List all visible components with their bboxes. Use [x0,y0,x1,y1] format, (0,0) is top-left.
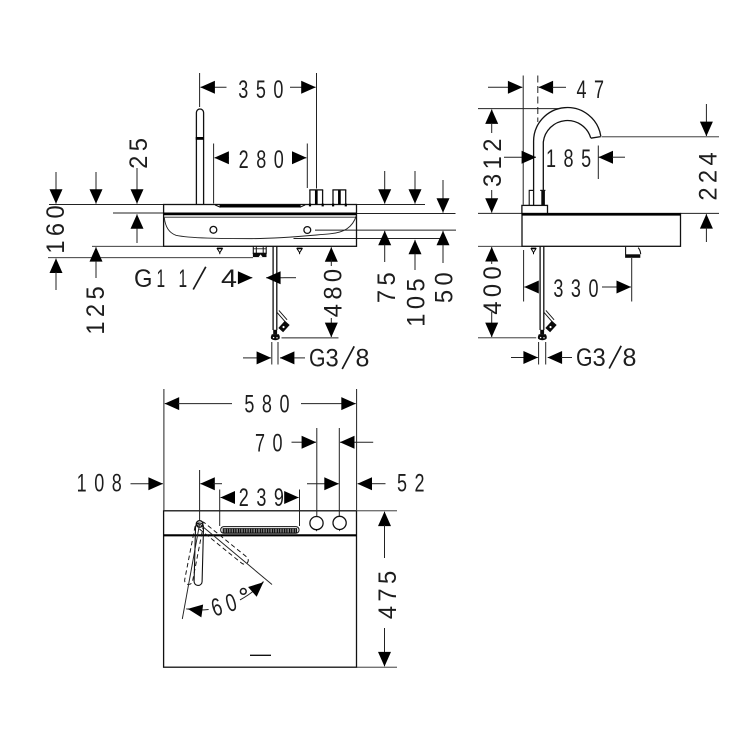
basin bottom ext left [92,245,164,247]
svg-text:105: 105 [403,274,431,327]
svg-text:G: G [576,343,593,371]
plan body rect [164,511,357,667]
outlet protrusion [625,247,641,258]
spout pipe [534,108,601,205]
basin body front [164,205,357,247]
knob circle left [310,517,323,530]
angle arc right segment [240,582,264,600]
svg-text:160: 160 [42,201,70,254]
handle dashed right position [196,520,250,566]
hose end level line [478,337,536,339]
dim 108 [77,469,222,521]
bowl curve [164,216,356,239]
svg-text:70: 70 [255,428,290,457]
angle leg right [200,524,272,585]
pivot circle [196,521,203,528]
dim 47 [488,75,612,205]
svg-text:224: 224 [695,148,723,201]
stud right under basin [297,248,303,254]
dim 50 [431,180,459,303]
svg-text:3: 3 [593,344,606,372]
hose end level line [282,337,339,339]
svg-text:239: 239 [239,483,292,512]
hose angled nut side [545,321,556,333]
dim 224 [695,104,723,242]
dim 160 [42,172,70,290]
wall line left [49,204,164,206]
svg-text:3: 3 [326,345,339,373]
deck front thick edge [164,213,357,216]
dim 75 [373,171,401,303]
knob 1 [309,190,324,207]
svg-text:280: 280 [239,145,292,174]
dim 105 [403,171,431,327]
thread block [529,190,546,205]
svg-text:52: 52 [397,469,432,498]
dim 350 [200,73,317,189]
knob circle right [333,516,346,529]
deck ext left [478,212,522,214]
wall line right ext [357,204,425,206]
angle arc left segment [186,609,208,610]
svg-text:25: 25 [125,134,153,169]
dim 70 [255,428,373,516]
drain grate [221,527,299,534]
dim 125 [82,172,110,335]
dim 185 [504,144,625,179]
dim 25 [125,134,153,243]
joystick handle [196,109,203,205]
arc arrow right [253,582,264,591]
handle dashed left position [184,522,204,585]
hose angled nut front [278,321,289,333]
dim 330 [524,250,632,303]
svg-text:350: 350 [238,75,291,104]
svg-text:1: 1 [179,265,188,293]
svg-text:480: 480 [320,265,348,318]
svg-text:50: 50 [431,268,459,303]
bottom tick [250,654,271,656]
dim G1 1/4 [134,265,296,293]
svg-text:47: 47 [576,75,611,104]
svg-text:312: 312 [479,134,507,187]
svg-text:475: 475 [374,566,402,619]
svg-text:125: 125 [82,282,110,335]
dim G3/8 front [243,342,369,373]
hose front [273,246,287,330]
svg-text:75: 75 [373,268,401,303]
dim 580 [164,389,357,510]
deck band thick line [164,534,357,536]
wall line top [478,108,559,110]
angle leg left [182,524,199,619]
svg-text:G: G [309,344,326,372]
svg-text:4: 4 [221,265,237,293]
svg-text:330: 330 [553,274,606,303]
dim G3/8 side [511,342,636,372]
svg-text:185: 185 [546,144,599,173]
deck line left (25mm lower line) [113,212,164,214]
circle axis line [315,229,456,231]
svg-text:1: 1 [157,265,166,293]
G1 1/4 fitting [253,246,267,257]
knob 2 [332,190,347,207]
hose end valve front [271,330,280,340]
svg-text:8: 8 [623,344,637,372]
spout outlet level line [602,136,720,138]
hose end valve side [538,330,547,340]
deck line right ext [357,213,456,215]
basin interior top edge [164,216,356,218]
hose side [540,246,554,330]
stud left under basin [217,248,223,254]
svg-text:G: G [134,265,152,293]
arc arrow left [188,609,200,611]
handle solid position [194,523,204,586]
svg-text:400: 400 [479,262,507,315]
svg-text:108: 108 [77,469,130,498]
dim 280 [214,144,308,204]
outlet axis ext line [294,238,443,240]
basin body side [522,214,681,247]
dim 52 [307,469,432,498]
overflow circle right [304,227,311,234]
svg-text:580: 580 [244,390,297,419]
basin bottom ext left [478,245,522,247]
overflow circle left [210,226,217,233]
spout slot strip [220,205,301,208]
dim 400 [479,247,507,337]
tip under basin side [531,248,536,254]
G1 1/4 axis line [48,257,253,259]
svg-text:8: 8 [356,345,370,373]
dim 312 [479,110,507,213]
escutcheon flange [522,205,548,214]
dim 239 [220,483,300,526]
deck ext right [681,212,720,214]
dim 475 [357,511,402,667]
dim 480 [320,247,348,337]
